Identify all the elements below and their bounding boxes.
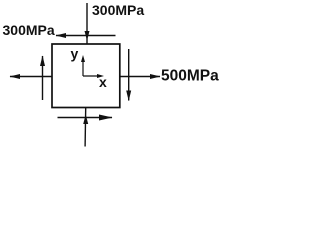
svg-text:500MPa: 500MPa bbox=[161, 68, 219, 85]
bottom normal stress arrow (pointing up) bbox=[83, 108, 88, 147]
bottom face shear arrow (pointing right) bbox=[58, 115, 113, 121]
left face shear arrow (pointing up) bbox=[40, 56, 45, 101]
x axis bbox=[83, 74, 104, 78]
right face shear arrow (pointing down) bbox=[126, 49, 131, 101]
stress element square bbox=[52, 44, 120, 108]
svg-text:300MPa: 300MPa bbox=[92, 2, 144, 18]
right normal stress arrow (500 MPa, pointing right) bbox=[120, 74, 161, 79]
y axis bbox=[81, 55, 85, 76]
svg-text:y: y bbox=[71, 46, 79, 62]
svg-text:300MPa: 300MPa bbox=[3, 22, 55, 38]
top normal stress arrow (300 MPa, pointing down) bbox=[85, 3, 90, 44]
left normal stress arrow (pointing left) bbox=[10, 74, 53, 79]
top face shear arrow (pointing left) bbox=[56, 33, 116, 38]
svg-text:x: x bbox=[99, 74, 107, 90]
